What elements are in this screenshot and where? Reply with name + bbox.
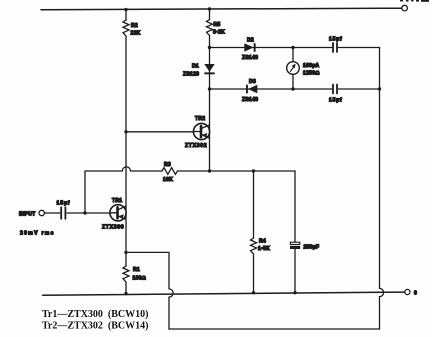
wire R4 vertical	[253, 171, 255, 238]
node junction dot C2 bottom	[293, 291, 296, 294]
svg-text:R3: R3	[164, 162, 171, 168]
diode D2 ZS140	[244, 43, 255, 52]
svg-text:ZS140: ZS140	[242, 55, 258, 61]
node junction dot upper branch left	[208, 46, 211, 49]
svg-text:100Ω: 100Ω	[133, 276, 146, 282]
svg-text:1250Ω: 1250Ω	[303, 71, 320, 77]
svg-text:R2: R2	[131, 23, 138, 29]
svg-text:15µf: 15µf	[329, 37, 343, 43]
node junction dot R2 top	[124, 8, 127, 11]
wire middle vertical (R5 / D1 / TR2 line)	[209, 9, 211, 20]
wire left vertical (R2 / TR1 collector line)	[125, 10, 127, 20]
svg-text:D1: D1	[192, 64, 199, 70]
svg-text:20mV rms: 20mV rms	[20, 231, 55, 237]
capacitor C1 15uF input	[61, 207, 65, 219]
resistor R5	[207, 20, 213, 36]
wire hop over left vertical	[122, 167, 130, 171]
svg-text:R4: R4	[259, 239, 266, 245]
node junction dot TR2 base	[124, 130, 127, 133]
capacitor 15uF upper	[333, 43, 337, 52]
svg-text:22K: 22K	[131, 31, 141, 37]
wire emitter to R1	[125, 252, 127, 266]
capacitor 15uF lower	[333, 85, 337, 94]
node junction dot meter bottom	[291, 87, 294, 90]
svg-text:ZTX300: ZTX300	[102, 225, 124, 231]
wire ground rail	[43, 292, 405, 295]
meter M1 100uA	[287, 48, 300, 90]
node top-right supply terminal	[402, 5, 408, 11]
wire hop over ground rail (right)	[380, 288, 384, 296]
node junction dot lower branch left	[208, 87, 211, 90]
svg-text:15µf: 15µf	[329, 98, 343, 104]
wire upper diode branch	[210, 47, 332, 49]
resistor R4	[251, 238, 257, 254]
diode D3 ZS140	[246, 85, 257, 94]
svg-text:15µf: 15µf	[57, 201, 71, 207]
transistor TR1	[110, 205, 126, 221]
svg-text:100µA: 100µA	[303, 63, 319, 69]
svg-text:INPUT: INPUT	[19, 212, 36, 218]
node junction dot R4 bottom	[252, 291, 255, 294]
svg-text:R5: R5	[214, 22, 221, 28]
svg-text:10K: 10K	[163, 177, 173, 183]
svg-text:D3: D3	[249, 79, 256, 85]
wire top supply rail	[41, 8, 402, 10]
svg-text:TR2: TR2	[195, 116, 205, 122]
diode D1 ZS120	[204, 64, 214, 74]
svg-text:8·2K: 8·2K	[213, 30, 225, 36]
wire TR1 base up to R3 line	[84, 171, 86, 213]
wire TR2 base to left vertical	[126, 131, 194, 133]
node junction dot meter top	[291, 46, 294, 49]
svg-text:ZTX302: ZTX302	[185, 143, 207, 149]
wire input line to TR1 base	[44, 212, 59, 214]
node junction dot R5 top	[208, 7, 211, 10]
node ground terminal 0	[405, 289, 410, 294]
svg-text:0: 0	[414, 291, 417, 297]
svg-text:R1: R1	[133, 267, 140, 273]
wire emitter feedback: right then down	[126, 252, 169, 289]
svg-text:ZS120: ZS120	[183, 72, 199, 78]
wire bottom feedback line	[169, 328, 380, 330]
svg-text:Tr1—ZTX300 (BCW10): Tr1—ZTX300 (BCW10)	[42, 309, 148, 320]
wire lower diode branch	[210, 88, 332, 90]
text cut-off supply label top edge	[400, 0, 429, 2]
wire node line (TR2 emitter / R3 / R4 / C out)	[85, 170, 122, 172]
svg-text:Tr2—ZTX302 (BCW14): Tr2—ZTX302 (BCW14)	[42, 321, 148, 332]
svg-text:TR1: TR1	[112, 198, 122, 204]
node junction dot R1 bottom	[124, 292, 127, 295]
node input terminal	[39, 210, 44, 215]
svg-text:D2: D2	[247, 38, 254, 44]
svg-text:1·5K: 1·5K	[258, 246, 270, 252]
wire hop over ground rail (left)	[169, 289, 173, 297]
capacitor C2 250uF	[294, 171, 296, 242]
resistor R3	[162, 168, 178, 175]
wire right vertical output line	[379, 48, 381, 289]
transistor TR2	[193, 123, 209, 139]
wire R1 bottom to ground rail	[125, 282, 127, 294]
svg-text:ZS140: ZS140	[242, 97, 258, 103]
node junction dot R1 top / emitter	[124, 251, 127, 254]
node junction dot right vertical at lower branch	[378, 87, 381, 90]
node junction dot R4 top	[252, 169, 255, 172]
resistor R1	[123, 266, 129, 282]
node junction dot TR2 emitter	[208, 169, 211, 172]
node junction dot TR1 base	[83, 211, 86, 214]
svg-text:250µF: 250µF	[304, 245, 320, 251]
resistor R2	[123, 20, 129, 36]
